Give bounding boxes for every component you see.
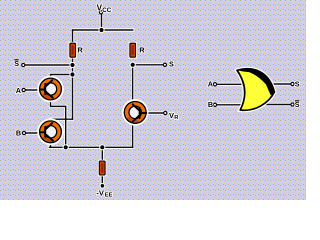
wire input B bbox=[26, 132, 40, 134]
wire Vcc stub bbox=[101, 14, 103, 30]
terminal S right bbox=[163, 63, 166, 66]
wire Q1 collector tap bbox=[51, 75, 73, 79]
svg-text:S: S bbox=[295, 79, 300, 88]
svg-text:A: A bbox=[16, 86, 21, 95]
resistor R1 bbox=[69, 43, 76, 58]
wire Q2 emitter stub bbox=[50, 143, 52, 148]
wire input A bbox=[26, 89, 41, 91]
label gate Sbar bbox=[295, 100, 300, 109]
label -VEE bbox=[96, 188, 112, 198]
wire halos bbox=[25, 14, 164, 185]
transistor Q3 bbox=[123, 100, 148, 125]
svg-text:-V: -V bbox=[96, 188, 104, 197]
OR gate U1 body bbox=[237, 69, 274, 111]
node Sbar junction bbox=[69, 62, 75, 68]
terminal Sbar left bbox=[22, 63, 25, 66]
label Sbar left bbox=[14, 59, 19, 68]
terminal A bbox=[22, 88, 25, 91]
wire RE bottom lead bbox=[101, 175, 103, 185]
wire top rail bbox=[73, 29, 133, 31]
terminal gate Sbar bbox=[291, 103, 294, 106]
terminal gate A bbox=[213, 83, 216, 86]
wire S output bbox=[133, 64, 164, 66]
wire right column bbox=[132, 65, 134, 102]
label VR bbox=[169, 111, 179, 121]
label VCC bbox=[97, 4, 112, 14]
node emitter rail junction 1 bbox=[63, 144, 69, 150]
wire left column upper bbox=[72, 30, 74, 44]
resistor RE bbox=[99, 161, 106, 176]
svg-text:R: R bbox=[139, 46, 145, 55]
OR gate top shadow band bbox=[239, 69, 275, 96]
node Q1 collector junction bbox=[69, 71, 75, 77]
OR gate output line S bbox=[268, 82, 291, 85]
terminal B bbox=[22, 131, 25, 134]
svg-text:B: B bbox=[16, 129, 21, 138]
svg-text:V: V bbox=[169, 111, 174, 120]
wire RE top lead bbox=[101, 147, 103, 161]
transistor Q1 bbox=[38, 77, 63, 102]
OR gate input line A bbox=[217, 83, 250, 86]
wire Q3 emitter stub bbox=[132, 123, 134, 147]
OR gate input line B bbox=[217, 103, 248, 106]
svg-text:S: S bbox=[169, 60, 174, 69]
transistor Q2 bbox=[38, 120, 63, 145]
terminal VCC bbox=[99, 11, 102, 14]
svg-text:A: A bbox=[208, 80, 213, 89]
wire left column below R bbox=[72, 57, 74, 119]
node S junction bbox=[130, 62, 136, 68]
svg-text:B: B bbox=[208, 100, 213, 109]
node VCC junction bbox=[98, 27, 104, 33]
resistor R2 bbox=[129, 43, 136, 58]
node emitter rail junction 2 bbox=[99, 144, 105, 150]
svg-text:EE: EE bbox=[105, 192, 113, 198]
terminal gate B bbox=[213, 103, 216, 106]
wire emitter rail bbox=[50, 146, 133, 148]
OR gate output line Sbar bbox=[262, 103, 291, 106]
wire Q1 emitter path bbox=[51, 100, 66, 147]
svg-text:R: R bbox=[77, 45, 83, 54]
terminal gate S bbox=[291, 82, 294, 85]
wire Sbar output bbox=[25, 64, 73, 66]
wire VR base lead bbox=[146, 112, 164, 114]
node -VEE terminal dot bbox=[100, 183, 106, 189]
svg-text:CC: CC bbox=[102, 7, 111, 14]
terminal VR bbox=[164, 111, 167, 114]
wire Q2 collector tap bbox=[51, 119, 73, 121]
